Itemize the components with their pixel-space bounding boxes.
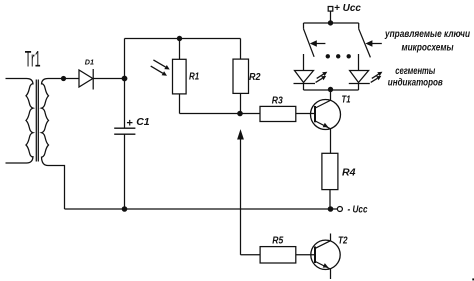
svg-text:+: + bbox=[127, 117, 133, 129]
svg-text:T1: T1 bbox=[342, 93, 351, 105]
svg-text:- Ucc: - Ucc bbox=[348, 204, 368, 215]
svg-text:+ Ucc: + Ucc bbox=[334, 3, 361, 14]
svg-text:D1: D1 bbox=[85, 57, 94, 66]
svg-text:R2: R2 bbox=[249, 71, 261, 83]
svg-text:сегменты: сегменты bbox=[395, 66, 435, 77]
svg-text:C1: C1 bbox=[136, 116, 150, 128]
svg-text:R3: R3 bbox=[272, 95, 283, 107]
svg-text:микросхемы: микросхемы bbox=[402, 42, 455, 53]
svg-text:T2: T2 bbox=[338, 234, 348, 246]
svg-text:Tr1: Tr1 bbox=[25, 46, 41, 71]
svg-text:R5: R5 bbox=[272, 234, 283, 246]
svg-text:индикаторов: индикаторов bbox=[388, 77, 443, 88]
svg-text:управляемые ключи: управляемые ключи bbox=[384, 29, 470, 40]
svg-text:R1: R1 bbox=[189, 71, 199, 83]
svg-text:R4: R4 bbox=[342, 167, 356, 179]
